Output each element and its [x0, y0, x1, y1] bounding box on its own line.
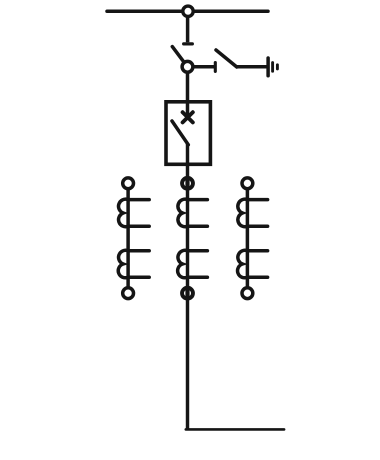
- switch node: [182, 61, 193, 72]
- ground bar 2: [271, 63, 274, 72]
- tap 2: [188, 225, 208, 229]
- CT T5 top ring (line passes through): [182, 178, 193, 189]
- winding group 2: [178, 250, 188, 278]
- breaker blade: [172, 121, 188, 145]
- breaker fixed contact X: [183, 112, 193, 122]
- right top ring: [242, 178, 253, 189]
- node on busbar: [183, 6, 193, 16]
- wire switch node to breaker: [186, 67, 190, 102]
- tap 3: [188, 249, 208, 253]
- tap 1: [247, 198, 267, 202]
- wire earth blade to ground: [236, 65, 267, 69]
- tap 2: [247, 225, 267, 229]
- tap 4: [128, 275, 149, 279]
- tap 2: [128, 225, 149, 229]
- busbar: [107, 10, 268, 14]
- CT T5 bottom ring (line passes through): [182, 288, 193, 299]
- winding group 1: [238, 199, 248, 227]
- earth switch blade Q8: [216, 50, 237, 67]
- winding group 1: [119, 199, 129, 227]
- tap 3: [247, 249, 267, 253]
- winding group 2: [118, 250, 128, 278]
- disconnect switch blade Q1: [172, 47, 187, 67]
- ground bar 3: [276, 65, 279, 69]
- wire over bottom CT ring: [185, 289, 189, 297]
- tap 1: [128, 198, 149, 202]
- CT T1 left column: [118, 178, 149, 299]
- tap 4: [188, 275, 208, 279]
- ground bar 1: [266, 58, 270, 76]
- tap 3: [128, 249, 149, 253]
- right bottom ring: [242, 288, 253, 299]
- bottom feeder wire: [186, 428, 284, 431]
- winding group 2: [238, 250, 248, 278]
- earth switch fixed contact bar: [214, 63, 217, 72]
- left spine wire: [126, 183, 130, 293]
- circuit breaker box: [166, 102, 210, 165]
- CT T2 right column: [238, 178, 268, 299]
- left top ring: [123, 178, 134, 189]
- winding group 1: [178, 199, 188, 227]
- left bottom ring: [123, 288, 134, 299]
- wire over top CT ring: [185, 179, 189, 188]
- wire switch node to earth switch: [188, 65, 215, 69]
- tap 4: [247, 275, 267, 279]
- wire into breaker: [186, 102, 190, 118]
- CT T5 middle column windings: [178, 199, 208, 278]
- tap 1: [188, 198, 208, 202]
- right spine wire: [246, 183, 250, 293]
- main vertical feeder wire: [186, 144, 189, 430]
- wire bus to disconnect contact: [186, 11, 190, 42]
- disconnect fixed contact bar: [184, 42, 193, 45]
